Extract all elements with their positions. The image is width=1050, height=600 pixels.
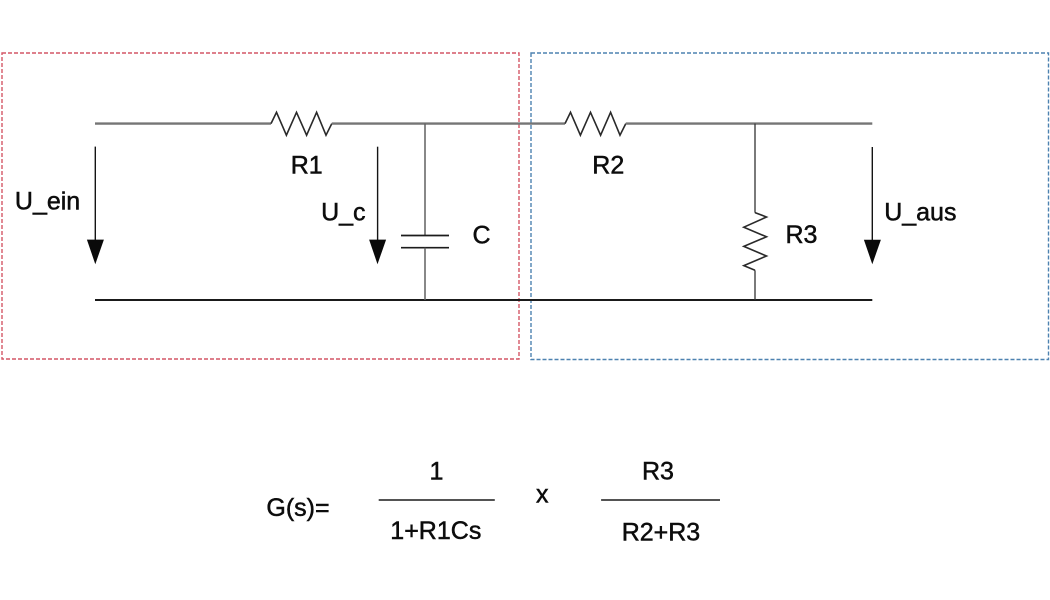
wire (capacitor top lead) (424, 124, 426, 236)
svg-text:R3: R3 (642, 458, 674, 486)
wire (R3 bottom lead) (754, 270, 756, 300)
svg-text:R2+R3: R2+R3 (622, 519, 701, 547)
wire (top rail, R2 to output) (626, 122, 873, 124)
svg-text:1+R1Cs: 1+R1Cs (390, 517, 481, 545)
wire (top rail, input to R1) (95, 122, 271, 124)
svg-text:R3: R3 (786, 221, 818, 249)
arrow U_c (369, 147, 386, 265)
blue dashed box (voltage divider stage boundary) (531, 53, 1049, 360)
svg-text:R1: R1 (291, 152, 323, 180)
resistor R1 (271, 112, 332, 135)
capacitor C (401, 236, 449, 248)
svg-text:U_ein: U_ein (15, 187, 80, 215)
svg-text:U_c: U_c (321, 198, 365, 226)
svg-text:1: 1 (430, 457, 444, 485)
svg-text:R2: R2 (592, 152, 624, 180)
svg-text:x: x (536, 481, 549, 509)
arrow U_ein (87, 147, 104, 265)
arrow U_aus (864, 147, 881, 264)
fraction 2 bar (601, 499, 720, 501)
svg-text:U_aus: U_aus (884, 199, 956, 227)
wire (capacitor bottom lead) (424, 248, 426, 300)
wire (top rail, R1 to R2) (332, 122, 565, 124)
svg-text:C: C (473, 221, 491, 249)
wire (R3 top lead) (754, 124, 756, 213)
wire (bottom rail) (95, 299, 872, 301)
fraction 1 bar (379, 499, 495, 501)
red dashed box (RC low-pass stage boundary) (2, 53, 519, 359)
svg-text:G(s)=: G(s)= (266, 494, 329, 522)
resistor R3 (744, 213, 767, 271)
resistor R2 (565, 112, 626, 135)
